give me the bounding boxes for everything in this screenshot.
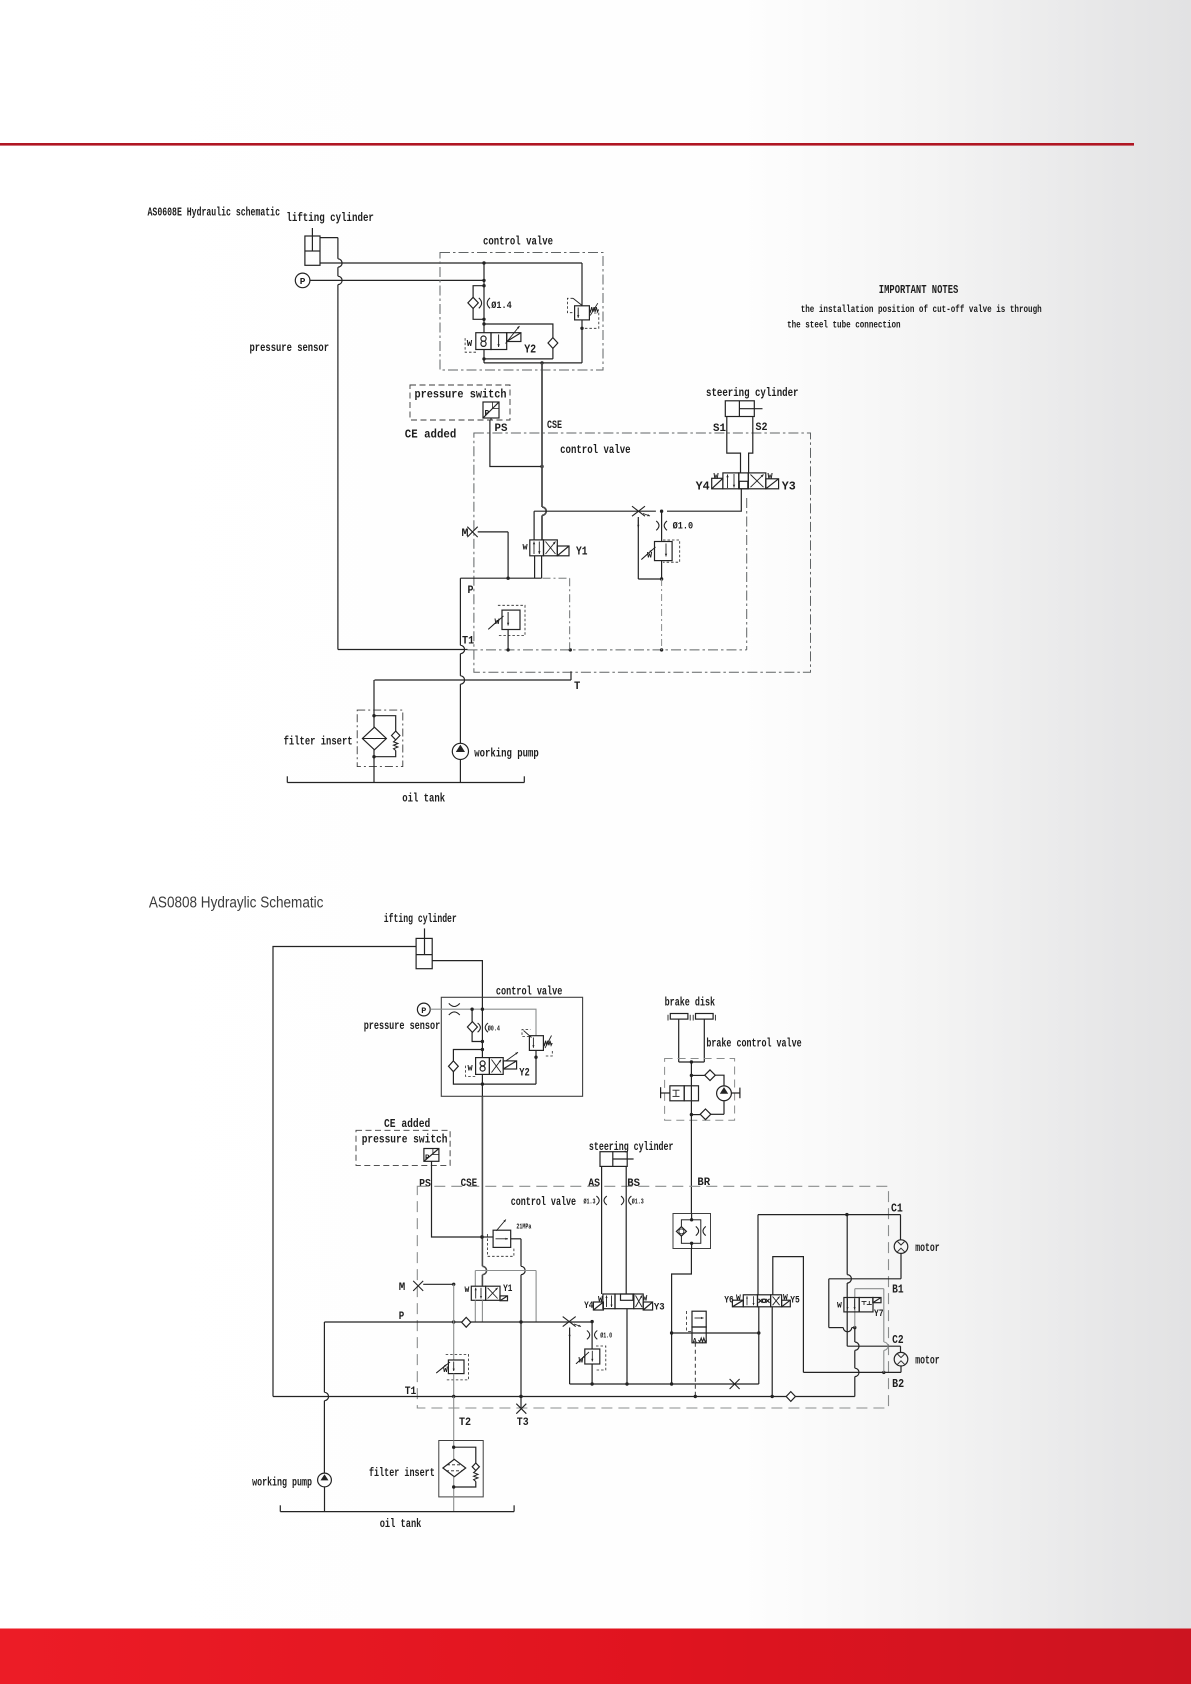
solenoid actuator Y2B: [503, 1061, 516, 1069]
wire T2 to filter: [453, 1397, 455, 1441]
svg-text:control valve: control valve: [483, 236, 553, 249]
orifice 1.0 steering: [661, 511, 663, 541]
svg-text:Y3: Y3: [782, 481, 796, 494]
svg-text:W: W: [468, 1064, 474, 1074]
svg-text:Y4: Y4: [584, 1300, 593, 1312]
svg-text:CSE: CSE: [461, 1178, 478, 1190]
svg-text:P: P: [300, 276, 306, 287]
svg-text:B1: B1: [892, 1284, 904, 1297]
steering cylinder SC2: [600, 1152, 627, 1167]
section divider vertical CV2 right: [746, 498, 748, 650]
check valve brake top: [691, 1074, 704, 1076]
svg-text:Ø1.3: Ø1.3: [632, 1197, 644, 1206]
top red rule: [0, 143, 1134, 146]
control valve CV4 enclosure: [417, 1186, 888, 1408]
svg-text:W: W: [736, 1294, 741, 1303]
wire pressure sensor to control valve: [310, 279, 484, 281]
solenoid valve Y1 body: [530, 540, 544, 556]
wire CV3 main vertical: [481, 1009, 483, 1057]
wire BR to reducing valve: [672, 1249, 692, 1385]
svg-text:oil tank: oil tank: [402, 793, 445, 806]
svg-text:T3: T3: [517, 1417, 529, 1429]
svg-text:AS0608E Hydraulic schematic: AS0608E Hydraulic schematic: [148, 207, 281, 220]
test point cross on distribution line: [730, 1379, 740, 1389]
wire C1 to motor 1: [900, 1215, 902, 1240]
wire lifting cylinder to CV3: [432, 961, 482, 1010]
wire V2 drain to T1: [854, 1328, 856, 1342]
wire relief valve CV2 to T1: [507, 630, 509, 650]
control valve CV2 enclosure: [474, 433, 811, 672]
solenoid Y5: [782, 1300, 791, 1307]
filter enclosure F1: [357, 710, 403, 767]
brake release valve body: [670, 1086, 684, 1101]
drain dash reducing valve: [694, 1343, 696, 1397]
wire Y2 outlet bottom: [483, 350, 485, 363]
relief valve CV2 body: [502, 610, 520, 629]
svg-text:Ø1.0: Ø1.0: [673, 521, 694, 533]
wire pump to tank: [459, 760, 461, 783]
check valve P line: [462, 1317, 471, 1327]
svg-text:steering cylinder: steering cylinder: [706, 387, 799, 400]
solenoid valve Y2B body: [476, 1058, 490, 1075]
svg-text:filter insert: filter insert: [369, 1467, 435, 1480]
relief valve CV3 body: [529, 1036, 543, 1051]
svg-text:Y2: Y2: [519, 1068, 530, 1080]
filter bypass check 2: [454, 1447, 476, 1463]
wire BS line: [625, 1166, 627, 1294]
wire flow control valve drain: [661, 561, 663, 579]
wire Y1 top ports: [533, 511, 535, 540]
control valve CV1 enclosure: [440, 253, 603, 371]
svg-text:W: W: [523, 543, 529, 553]
spring of relief valve CV1: [589, 307, 598, 312]
wire pressure sensor 2: [430, 1008, 482, 1010]
valve Y7 body: [844, 1298, 859, 1312]
wire Y1B feed jog: [474, 1271, 476, 1287]
wire P supply line 2: [324, 1321, 461, 1323]
svg-text:AS0808 Hydraylic Schematic: AS0808 Hydraylic Schematic: [149, 895, 324, 912]
svg-text:Y5: Y5: [790, 1295, 800, 1307]
wire CV1 top to relief branch: [484, 262, 582, 264]
flow control valve 2: [585, 1349, 600, 1364]
wire PS2 to CSE junction: [432, 1161, 483, 1237]
svg-text:B2: B2: [892, 1378, 904, 1391]
wire Y2B outlet: [481, 1074, 483, 1096]
directional valve Y6Y5 body: [743, 1295, 757, 1307]
solenoid Y4: [712, 478, 723, 489]
svg-text:W: W: [495, 617, 501, 627]
svg-text:Y1: Y1: [503, 1283, 512, 1295]
valve Y7 block wiring: [855, 1288, 884, 1290]
svg-text:Ø1.4: Ø1.4: [491, 300, 512, 312]
svg-text:S1: S1: [713, 423, 726, 435]
solenoid actuator Y1: [557, 546, 569, 556]
svg-text:W: W: [768, 472, 774, 482]
bottom red bar: [0, 1629, 1191, 1684]
svg-text:T2: T2: [459, 1417, 471, 1429]
brake disk right: [696, 1014, 714, 1020]
svg-text:W: W: [465, 1286, 470, 1295]
svg-text:working pump: working pump: [474, 748, 539, 761]
svg-text:W: W: [467, 339, 473, 349]
check valve CV1 bypass: [473, 286, 484, 298]
oil tank symbol: [287, 782, 524, 784]
pressure sensor gauge P: [295, 273, 310, 288]
throttle bypass arrow line: [637, 517, 639, 579]
solenoid actuator of Y2: [507, 333, 521, 342]
svg-text:Y3: Y3: [654, 1302, 665, 1314]
svg-text:the installation position of c: the installation position of cut-off val…: [801, 304, 1042, 316]
orifice AS 1.3: [596, 1196, 599, 1205]
svg-text:oil tank: oil tank: [380, 1518, 422, 1531]
svg-text:motor: motor: [915, 1242, 940, 1255]
wire relief T2 outlet: [453, 1374, 455, 1397]
solenoid Y7: [873, 1298, 881, 1303]
wire B1 return: [900, 1253, 902, 1278]
svg-text:ifting cylinder: ifting cylinder: [384, 913, 457, 926]
orifice 1.4 on CV1 main line: [479, 298, 482, 308]
svg-text:W: W: [783, 1294, 788, 1303]
orifice 0.4 CV3: [478, 1023, 481, 1032]
wire Y4Y3 to feed line: [667, 489, 741, 511]
svg-text:the steel tube connection: the steel tube connection: [787, 320, 901, 332]
solenoid Y6: [732, 1300, 743, 1307]
svg-text:M: M: [399, 1282, 406, 1294]
damping orifice on sensor line: [449, 1003, 460, 1006]
variable throttle P line 2: [563, 1317, 576, 1327]
wire B2 line: [900, 1366, 902, 1373]
pilot lines of relief valve CV1: [567, 298, 574, 312]
svg-text:T1: T1: [405, 1386, 417, 1398]
svg-text:Ø1.3: Ø1.3: [584, 1197, 596, 1206]
wire C1 supply: [757, 1215, 759, 1295]
wire lifting cylinder to control valve A: [320, 237, 338, 239]
wire jog Y6Y5 to B2: [773, 1257, 804, 1373]
svg-text:S2: S2: [756, 422, 768, 434]
wire through reducing valve: [672, 1332, 759, 1334]
pressure switch PS2 enclosure: [356, 1130, 450, 1165]
solenoid Y3B: [643, 1302, 652, 1310]
svg-text:Y2: Y2: [524, 343, 536, 356]
filter insert element: [373, 680, 375, 727]
wire distribution to Y6Y5: [758, 1307, 760, 1384]
wire CSE gray vertical: [481, 1096, 483, 1266]
steering cylinder SC1: [725, 401, 754, 417]
svg-text:W: W: [643, 1295, 648, 1304]
filter enclosure F2: [439, 1441, 483, 1497]
motor M1: [894, 1240, 908, 1254]
svg-text:working pump: working pump: [252, 1476, 312, 1489]
svg-text:pressure switch: pressure switch: [362, 1134, 448, 1147]
svg-text:T: T: [574, 681, 581, 693]
svg-text:pressure switch: pressure switch: [415, 389, 507, 402]
working pump PU2: [318, 1473, 332, 1487]
orifice BS 1.3: [621, 1196, 624, 1205]
control valve CV3 enclosure: [441, 997, 582, 1096]
relief valve T2 body: [453, 1284, 455, 1360]
check valve brake bottom: [691, 1114, 700, 1116]
svg-text:CE added: CE added: [405, 428, 457, 442]
svg-text:P: P: [425, 1155, 430, 1163]
check valve CV3 left: [453, 1050, 482, 1061]
wire Y6Y5 drain to T1: [771, 1307, 773, 1397]
svg-text:Ø0.4: Ø0.4: [488, 1025, 501, 1034]
wire pump pressure riser: [459, 578, 461, 645]
lifting cylinder LC2: [416, 938, 432, 968]
svg-text:control valve: control valve: [560, 444, 631, 457]
junction P line end: [590, 1320, 593, 1323]
pressure switch symbol: [483, 402, 499, 418]
orifice 1.0 flow branch: [591, 1322, 593, 1349]
wire S2 to valve Y4Y3: [749, 417, 753, 473]
svg-text:pressure sensor: pressure sensor: [250, 342, 330, 355]
svg-text:A: A: [693, 1337, 697, 1344]
wire BR down from brake valve: [690, 1115, 692, 1214]
wire S1 to valve Y4Y3: [727, 417, 741, 473]
wire 21MPa outlet: [511, 1238, 521, 1240]
svg-text:pressure sensor: pressure sensor: [364, 1020, 441, 1033]
test point T3 cross: [516, 1404, 526, 1414]
solenoid actuator Y1B: [500, 1296, 508, 1301]
wire feed line left segment: [534, 510, 656, 512]
svg-text:21MPa: 21MPa: [516, 1224, 531, 1232]
filter bypass check valve: [374, 716, 396, 732]
solenoid Y4B: [593, 1302, 603, 1310]
svg-text:C1: C1: [891, 1203, 903, 1216]
svg-text:Y6: Y6: [724, 1295, 734, 1307]
wire flow control valve 2 outlet: [591, 1364, 593, 1384]
wire C2 line: [847, 1345, 900, 1347]
reducing valve BR body: [692, 1311, 706, 1327]
relief valve 21MPa body: [482, 1236, 493, 1238]
throttle bypass arrow line 2: [569, 1328, 571, 1385]
svg-text:brake control valve: brake control valve: [706, 1037, 801, 1050]
wire tank return T: [570, 671, 572, 680]
section divider short CV2 left: [543, 577, 570, 579]
svg-text:P: P: [421, 1006, 426, 1016]
svg-text:IMPORTANT NOTES: IMPORTANT NOTES: [879, 284, 959, 297]
wire CV3 gray top run: [482, 1009, 536, 1035]
filter element 2: [453, 1441, 455, 1460]
svg-text:motor: motor: [915, 1355, 940, 1368]
svg-text:brake disk: brake disk: [665, 997, 716, 1010]
pressure switch PS1 enclosure: [410, 385, 510, 420]
push actuator brake valve: [661, 1092, 670, 1094]
svg-text:lifting cylinder: lifting cylinder: [286, 212, 374, 225]
wire Y1B bottom ports: [474, 1300, 476, 1322]
pilot bracket 21MPa: [487, 1234, 514, 1256]
wire T1 return line: [273, 1396, 786, 1398]
directional valve Y4Y3B body: [603, 1294, 615, 1309]
svg-text:Y7: Y7: [874, 1308, 884, 1320]
wire AS line: [601, 1166, 603, 1294]
wire brake valve vertical: [690, 1062, 692, 1115]
spring relief CV3: [543, 1041, 552, 1046]
lifting cylinder LC1: [305, 236, 320, 265]
variable throttle on feed line: [632, 506, 645, 516]
section divider T1 line CV2: [468, 649, 747, 651]
svg-text:CSE: CSE: [547, 420, 562, 432]
motor M2: [894, 1352, 908, 1366]
svg-text:AS: AS: [588, 1178, 600, 1190]
wire Y4Y3B bottom port: [626, 1309, 628, 1384]
svg-text:control valve: control valve: [511, 1196, 576, 1209]
flow control valve steering: [655, 542, 673, 561]
check valve bypass CV3: [471, 1009, 473, 1022]
solenoid valve Y1B body: [471, 1286, 485, 1300]
junction feed line: [660, 510, 663, 513]
working pump PU1: [452, 743, 468, 759]
solenoid valve Y2 body: [476, 333, 491, 350]
wire Y1 bottom ports: [534, 556, 536, 578]
shuttle orifice block BR: [673, 1214, 711, 1249]
wire PS to CSE: [490, 420, 542, 467]
pressure switch 2 symbol: [424, 1149, 439, 1162]
svg-text:BR: BR: [697, 1177, 710, 1189]
svg-text:control valve: control valve: [496, 985, 563, 998]
svg-text:filter insert: filter insert: [284, 736, 353, 749]
brake disk left: [670, 1014, 688, 1020]
svg-text:P: P: [399, 1311, 405, 1323]
svg-text:W: W: [837, 1302, 842, 1311]
svg-text:P: P: [485, 410, 490, 419]
wire CSE vertical: [540, 465, 543, 468]
svg-text:Y4: Y4: [696, 481, 710, 494]
brake control valve enclosure: [665, 1059, 735, 1121]
svg-text:Ø1.0: Ø1.0: [600, 1332, 612, 1341]
wire P supply line CV2: [460, 577, 541, 579]
hand pump brake: [717, 1086, 732, 1101]
wire CV1 branch to check valve: [484, 324, 553, 338]
check valve T1 line: [786, 1392, 795, 1402]
pilot dash reducing valve: [687, 1311, 692, 1332]
wire bottom distribution line: [592, 1383, 759, 1385]
svg-text:BS: BS: [627, 1178, 640, 1190]
svg-text:M: M: [462, 528, 469, 540]
svg-text:W: W: [598, 1295, 603, 1304]
directional valve Y4 Y3 body: [723, 473, 739, 489]
svg-text:CE added: CE added: [384, 1118, 430, 1131]
svg-text:T1: T1: [462, 636, 475, 648]
wire lifting cylinder left return: [273, 947, 416, 1397]
wire pressure sensor drain vertical: [337, 238, 339, 259]
check valve CV1 outlet: [548, 338, 558, 349]
svg-text:W: W: [714, 472, 720, 482]
svg-text:Y1: Y1: [576, 546, 588, 559]
wire relief CV3 to outlet: [535, 1050, 537, 1084]
pilot lines relief CV3: [522, 1030, 531, 1037]
pressure sensor gauge P2: [417, 1003, 430, 1016]
wire CV1 main vertical: [483, 263, 485, 333]
solenoid Y3: [766, 479, 779, 489]
wire V1 C1 to C2: [846, 1215, 848, 1275]
wire pump 2 riser: [323, 1322, 325, 1392]
svg-text:C2: C2: [892, 1334, 904, 1347]
svg-text:P: P: [468, 585, 474, 597]
wire brake disks to junction: [678, 1019, 680, 1062]
relief valve CV1 body: [575, 306, 590, 320]
svg-text:PS: PS: [419, 1179, 431, 1191]
oil tank symbol 2: [280, 1511, 514, 1513]
